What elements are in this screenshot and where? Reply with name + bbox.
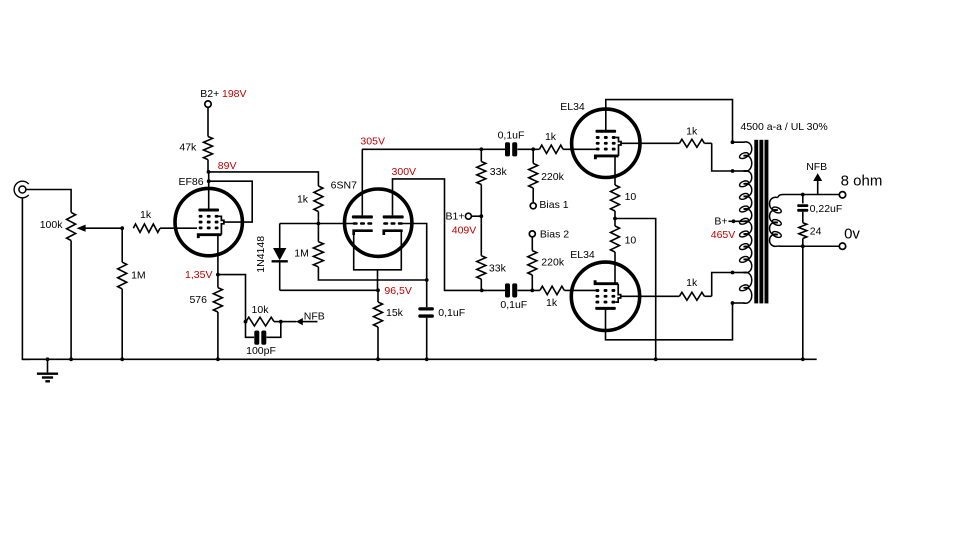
label 1k bottom coupling bbox=[546, 297, 558, 309]
svg-text:B+: B+ bbox=[714, 216, 727, 228]
svg-text:1M: 1M bbox=[131, 269, 146, 281]
wire jack to pot bbox=[26, 190, 71, 213]
ground bus bbox=[22, 358, 817, 360]
svg-text:10: 10 bbox=[625, 234, 637, 246]
wire cap to 1k top bbox=[517, 148, 539, 150]
svg-text:1k: 1k bbox=[545, 131, 557, 143]
label 96,5V bbox=[384, 285, 411, 297]
svg-text:100pF: 100pF bbox=[246, 345, 276, 357]
node ground 15k bbox=[376, 357, 380, 361]
terminal Bias 2 bbox=[529, 231, 535, 237]
node EF86 screen tie bbox=[207, 179, 211, 183]
wire 1M to line A bbox=[318, 267, 426, 280]
resistor 220k bottom bbox=[528, 237, 537, 291]
wire secondary bottom to ground bbox=[802, 246, 804, 359]
label 6SN7 bbox=[331, 179, 357, 191]
wire EL34 bottom plate bbox=[606, 303, 733, 340]
resistor 33k bottom bbox=[477, 216, 486, 290]
label EL34 top bbox=[560, 101, 585, 113]
svg-text:576: 576 bbox=[189, 294, 207, 306]
wire EF86 screen loop bbox=[209, 181, 253, 222]
wire pot to ground bbox=[70, 241, 72, 360]
label 0,22uF bbox=[810, 203, 843, 215]
potentiometer 100k bbox=[67, 212, 123, 240]
svg-text:1M: 1M bbox=[294, 247, 309, 259]
svg-text:198V: 198V bbox=[222, 88, 247, 100]
capacitor 100pF bbox=[246, 322, 281, 345]
diode 1N4148 bbox=[272, 224, 288, 291]
transformer primary tap bottom bbox=[731, 301, 735, 305]
tube EF86 electrodes bbox=[198, 209, 224, 239]
label 300V bbox=[392, 166, 417, 178]
svg-text:0,22uF: 0,22uF bbox=[810, 203, 843, 215]
svg-text:24: 24 bbox=[810, 225, 822, 237]
svg-text:EF86: EF86 bbox=[178, 176, 203, 188]
capacitor 0,1uF top bbox=[505, 142, 517, 156]
svg-text:1,35V: 1,35V bbox=[185, 269, 212, 281]
wire 1k to EL34 grid bottom bbox=[564, 289, 596, 291]
terminal 0v bbox=[839, 243, 845, 249]
node 10k left bbox=[244, 320, 248, 324]
svg-text:10: 10 bbox=[625, 191, 637, 203]
terminal Bias 1 bbox=[530, 203, 536, 209]
node 33k bottom bbox=[480, 289, 484, 293]
svg-text:89V: 89V bbox=[218, 160, 237, 172]
node secondary bottom bbox=[801, 244, 805, 248]
node 96.5V bbox=[376, 288, 380, 292]
wire screen top to UL tap bbox=[712, 143, 733, 171]
wire EL34 bottom screen bbox=[621, 295, 680, 297]
tube EF86 envelope bbox=[175, 188, 242, 255]
label 1k top coupling bbox=[545, 131, 557, 143]
label 305V bbox=[360, 135, 385, 147]
wire 96.5V line bbox=[280, 289, 378, 291]
NFB arrow input stage bbox=[281, 318, 318, 325]
resistor 1M 6SN7 bbox=[313, 224, 323, 267]
wire 305V line bbox=[362, 148, 505, 150]
node wiper junction bbox=[120, 226, 124, 230]
svg-text:0,1uF: 0,1uF bbox=[438, 307, 465, 319]
label 33k top bbox=[490, 166, 508, 178]
resistor 1k grid stopper EF86 bbox=[133, 224, 160, 232]
node ground bypass cap bbox=[425, 357, 429, 361]
terminal 8 ohm bbox=[839, 192, 845, 198]
label B+ bbox=[714, 216, 732, 228]
svg-text:305V: 305V bbox=[360, 135, 385, 147]
resistor 10k feedback bbox=[246, 317, 281, 326]
node 1k/1M junction bbox=[317, 222, 321, 226]
label 220k bottom bbox=[541, 256, 565, 268]
wire EF86 plate to 89V bbox=[208, 172, 210, 210]
label 33k bottom bbox=[489, 262, 507, 274]
svg-text:220k: 220k bbox=[541, 171, 565, 183]
wire 89V rail to 1k 6SN7 bbox=[209, 172, 319, 186]
capacitor 0,1uF cathode bypass bbox=[418, 280, 434, 359]
svg-text:Bias 2: Bias 2 bbox=[540, 228, 569, 240]
svg-text:Bias 1: Bias 1 bbox=[539, 199, 568, 211]
label 1N4148 bbox=[255, 236, 267, 273]
wire midpoint to ground bbox=[615, 219, 656, 360]
node 10k right bbox=[279, 320, 283, 324]
svg-text:1k: 1k bbox=[297, 194, 309, 206]
label NFB input bbox=[304, 310, 325, 322]
terminal B2+ bbox=[205, 101, 211, 107]
svg-text:NFB: NFB bbox=[304, 310, 325, 322]
node ground 10ohm mid bbox=[654, 357, 658, 361]
wire 6SN7 left plate to 305V bbox=[361, 149, 363, 215]
wire 1k to node bbox=[317, 212, 319, 224]
node ground secondary bbox=[801, 357, 805, 361]
svg-text:15k: 15k bbox=[386, 307, 404, 319]
node 1.35V cathode bbox=[216, 273, 220, 277]
capacitor 0,1uF bottom bbox=[482, 283, 517, 297]
wire cap to 1k bottom bbox=[517, 289, 540, 291]
resistor 576 bbox=[213, 275, 222, 360]
resistor 15k bbox=[374, 290, 383, 359]
wire grid line 6SN7 bbox=[280, 223, 353, 225]
wire right grid down bbox=[403, 224, 427, 281]
label 15k bbox=[386, 307, 404, 319]
resistor 1k bottom coupling bbox=[540, 286, 564, 294]
svg-text:96,5V: 96,5V bbox=[384, 285, 411, 297]
wire 1k to EL34 grid top bbox=[563, 148, 596, 150]
svg-text:EL34: EL34 bbox=[560, 101, 585, 113]
label 1M input bbox=[131, 269, 146, 281]
input jack J1 bbox=[14, 181, 29, 198]
svg-text:1k: 1k bbox=[546, 297, 558, 309]
wire B2+ to 47k bbox=[207, 107, 209, 136]
label 220k top bbox=[541, 171, 565, 183]
label EL34 bottom bbox=[570, 249, 595, 261]
node 89V bbox=[207, 170, 211, 174]
transformer primary winding bbox=[733, 142, 752, 303]
label Bias 2 bbox=[540, 228, 569, 240]
svg-text:100k: 100k bbox=[40, 219, 64, 231]
svg-text:409V: 409V bbox=[452, 225, 477, 237]
resistor 1k screen bottom bbox=[679, 292, 711, 300]
resistor 1k 6SN7 bbox=[314, 186, 323, 212]
wire EL34 top plate bbox=[606, 100, 733, 143]
label 1k screen bottom bbox=[686, 277, 698, 289]
node ground pot bbox=[69, 357, 73, 361]
svg-text:B2+: B2+ bbox=[200, 88, 219, 100]
terminal B1+ bbox=[465, 213, 481, 219]
wire cathode to 10k bbox=[218, 275, 246, 322]
label 198V bbox=[222, 88, 247, 100]
tube EL34 top envelope bbox=[572, 109, 640, 177]
label 10 top bbox=[625, 191, 637, 203]
node line A right bbox=[425, 278, 429, 282]
wire EL34 top cathode bbox=[614, 156, 616, 185]
tube 6SN7 envelope bbox=[345, 189, 412, 256]
transformer secondary winding and leads bbox=[770, 195, 842, 247]
label 1k screen top bbox=[686, 125, 698, 137]
svg-text:10k: 10k bbox=[252, 304, 270, 316]
svg-text:33k: 33k bbox=[490, 166, 508, 178]
label 47k bbox=[179, 142, 197, 154]
label 1M 6SN7 bbox=[294, 247, 309, 259]
svg-text:1N4148: 1N4148 bbox=[255, 236, 267, 273]
svg-text:33k: 33k bbox=[489, 262, 507, 274]
resistor 10 top bbox=[611, 185, 620, 219]
capacitor 0,22uF zobel bbox=[797, 195, 808, 223]
resistor 10 bottom bbox=[611, 219, 620, 285]
label 100k bbox=[40, 219, 64, 231]
label 8 ohm bbox=[841, 173, 883, 190]
node 33k top bbox=[479, 147, 483, 151]
wire 6SN7 cathode bus bbox=[354, 232, 402, 291]
tube 6SN7 right triode bbox=[383, 215, 404, 235]
label 89V bbox=[218, 160, 237, 172]
wire 47k to 89V node bbox=[207, 160, 209, 172]
node secondary top bbox=[801, 193, 805, 197]
svg-text:B1+: B1+ bbox=[446, 211, 465, 223]
label NFB secondary bbox=[806, 161, 827, 173]
resistor 1k screen top bbox=[679, 139, 711, 147]
label 1,35V bbox=[185, 269, 212, 281]
transformer primary tap UL2 bbox=[731, 271, 735, 275]
label 100pF bbox=[246, 345, 276, 357]
label 1k input bbox=[140, 209, 152, 221]
tube EL34 bottom envelope bbox=[571, 262, 639, 330]
label 576 bbox=[189, 294, 207, 306]
transformer primary tap B+ bbox=[732, 219, 736, 223]
svg-text:465V: 465V bbox=[711, 229, 736, 241]
label 24 bbox=[810, 225, 822, 237]
label 10k bbox=[252, 304, 270, 316]
node ground 576 bbox=[216, 357, 220, 361]
label 0,1uF bypass bbox=[438, 307, 465, 319]
svg-text:1k: 1k bbox=[686, 277, 698, 289]
label 0v bbox=[844, 225, 860, 242]
svg-text:0v: 0v bbox=[844, 225, 860, 242]
label B2+ bbox=[200, 88, 219, 100]
ground symbol bbox=[37, 357, 58, 381]
tube EL34 bottom electrodes bbox=[595, 280, 621, 310]
svg-text:1k: 1k bbox=[140, 209, 152, 221]
node 220k top bbox=[531, 147, 535, 151]
label 0,1uF bottom bbox=[500, 299, 527, 311]
label 409V bbox=[452, 225, 477, 237]
resistor 1M input bbox=[118, 228, 127, 359]
wire EL34 top screen bbox=[621, 142, 679, 144]
node B1+ rail bbox=[479, 214, 483, 218]
label transformer bbox=[741, 121, 828, 133]
label 0,1uF top bbox=[498, 129, 525, 141]
svg-text:220k: 220k bbox=[541, 256, 565, 268]
svg-text:300V: 300V bbox=[392, 166, 417, 178]
wire screen bottom to UL tap bbox=[712, 273, 733, 297]
svg-text:NFB: NFB bbox=[806, 161, 827, 173]
tube EL34 top electrodes bbox=[595, 130, 621, 160]
svg-text:0,1uF: 0,1uF bbox=[500, 299, 527, 311]
resistor 1k top coupling bbox=[539, 145, 563, 153]
label Bias 1 bbox=[539, 199, 568, 211]
wire 6SN7 right plate 300V bbox=[393, 179, 482, 291]
wire jack to ground bus bbox=[22, 198, 30, 359]
svg-text:8 ohm: 8 ohm bbox=[841, 173, 883, 190]
node 10 ohm midpoint bbox=[613, 217, 617, 221]
wire EF86 cathode bbox=[217, 235, 219, 274]
NFB arrow secondary bbox=[813, 173, 822, 194]
label 465V bbox=[711, 229, 736, 241]
resistor 24 zobel bbox=[799, 223, 807, 247]
svg-text:EL34: EL34 bbox=[570, 249, 595, 261]
resistor 220k top bbox=[529, 149, 538, 203]
label 10 bottom bbox=[625, 234, 637, 246]
label EF86 bbox=[178, 176, 203, 188]
transformer core bbox=[754, 140, 768, 304]
label B1+ bbox=[446, 211, 465, 223]
wire 1k to EF86 grid bbox=[160, 227, 197, 229]
label 1k 6SN7 bbox=[297, 194, 309, 206]
tube 6SN7 left triode bbox=[352, 215, 373, 235]
svg-text:1k: 1k bbox=[686, 125, 698, 137]
node ground 1M input bbox=[120, 357, 124, 361]
resistor 47k bbox=[204, 137, 213, 160]
resistor 33k top bbox=[477, 149, 486, 216]
svg-text:47k: 47k bbox=[179, 142, 197, 154]
svg-text:4500 a-a / UL 30%: 4500 a-a / UL 30% bbox=[741, 121, 828, 133]
svg-text:6SN7: 6SN7 bbox=[331, 179, 357, 191]
node 220k bottom bbox=[530, 289, 534, 293]
svg-text:0,1uF: 0,1uF bbox=[498, 129, 525, 141]
transformer primary tap UL1 bbox=[731, 169, 735, 173]
transformer primary tap top bbox=[731, 140, 735, 144]
